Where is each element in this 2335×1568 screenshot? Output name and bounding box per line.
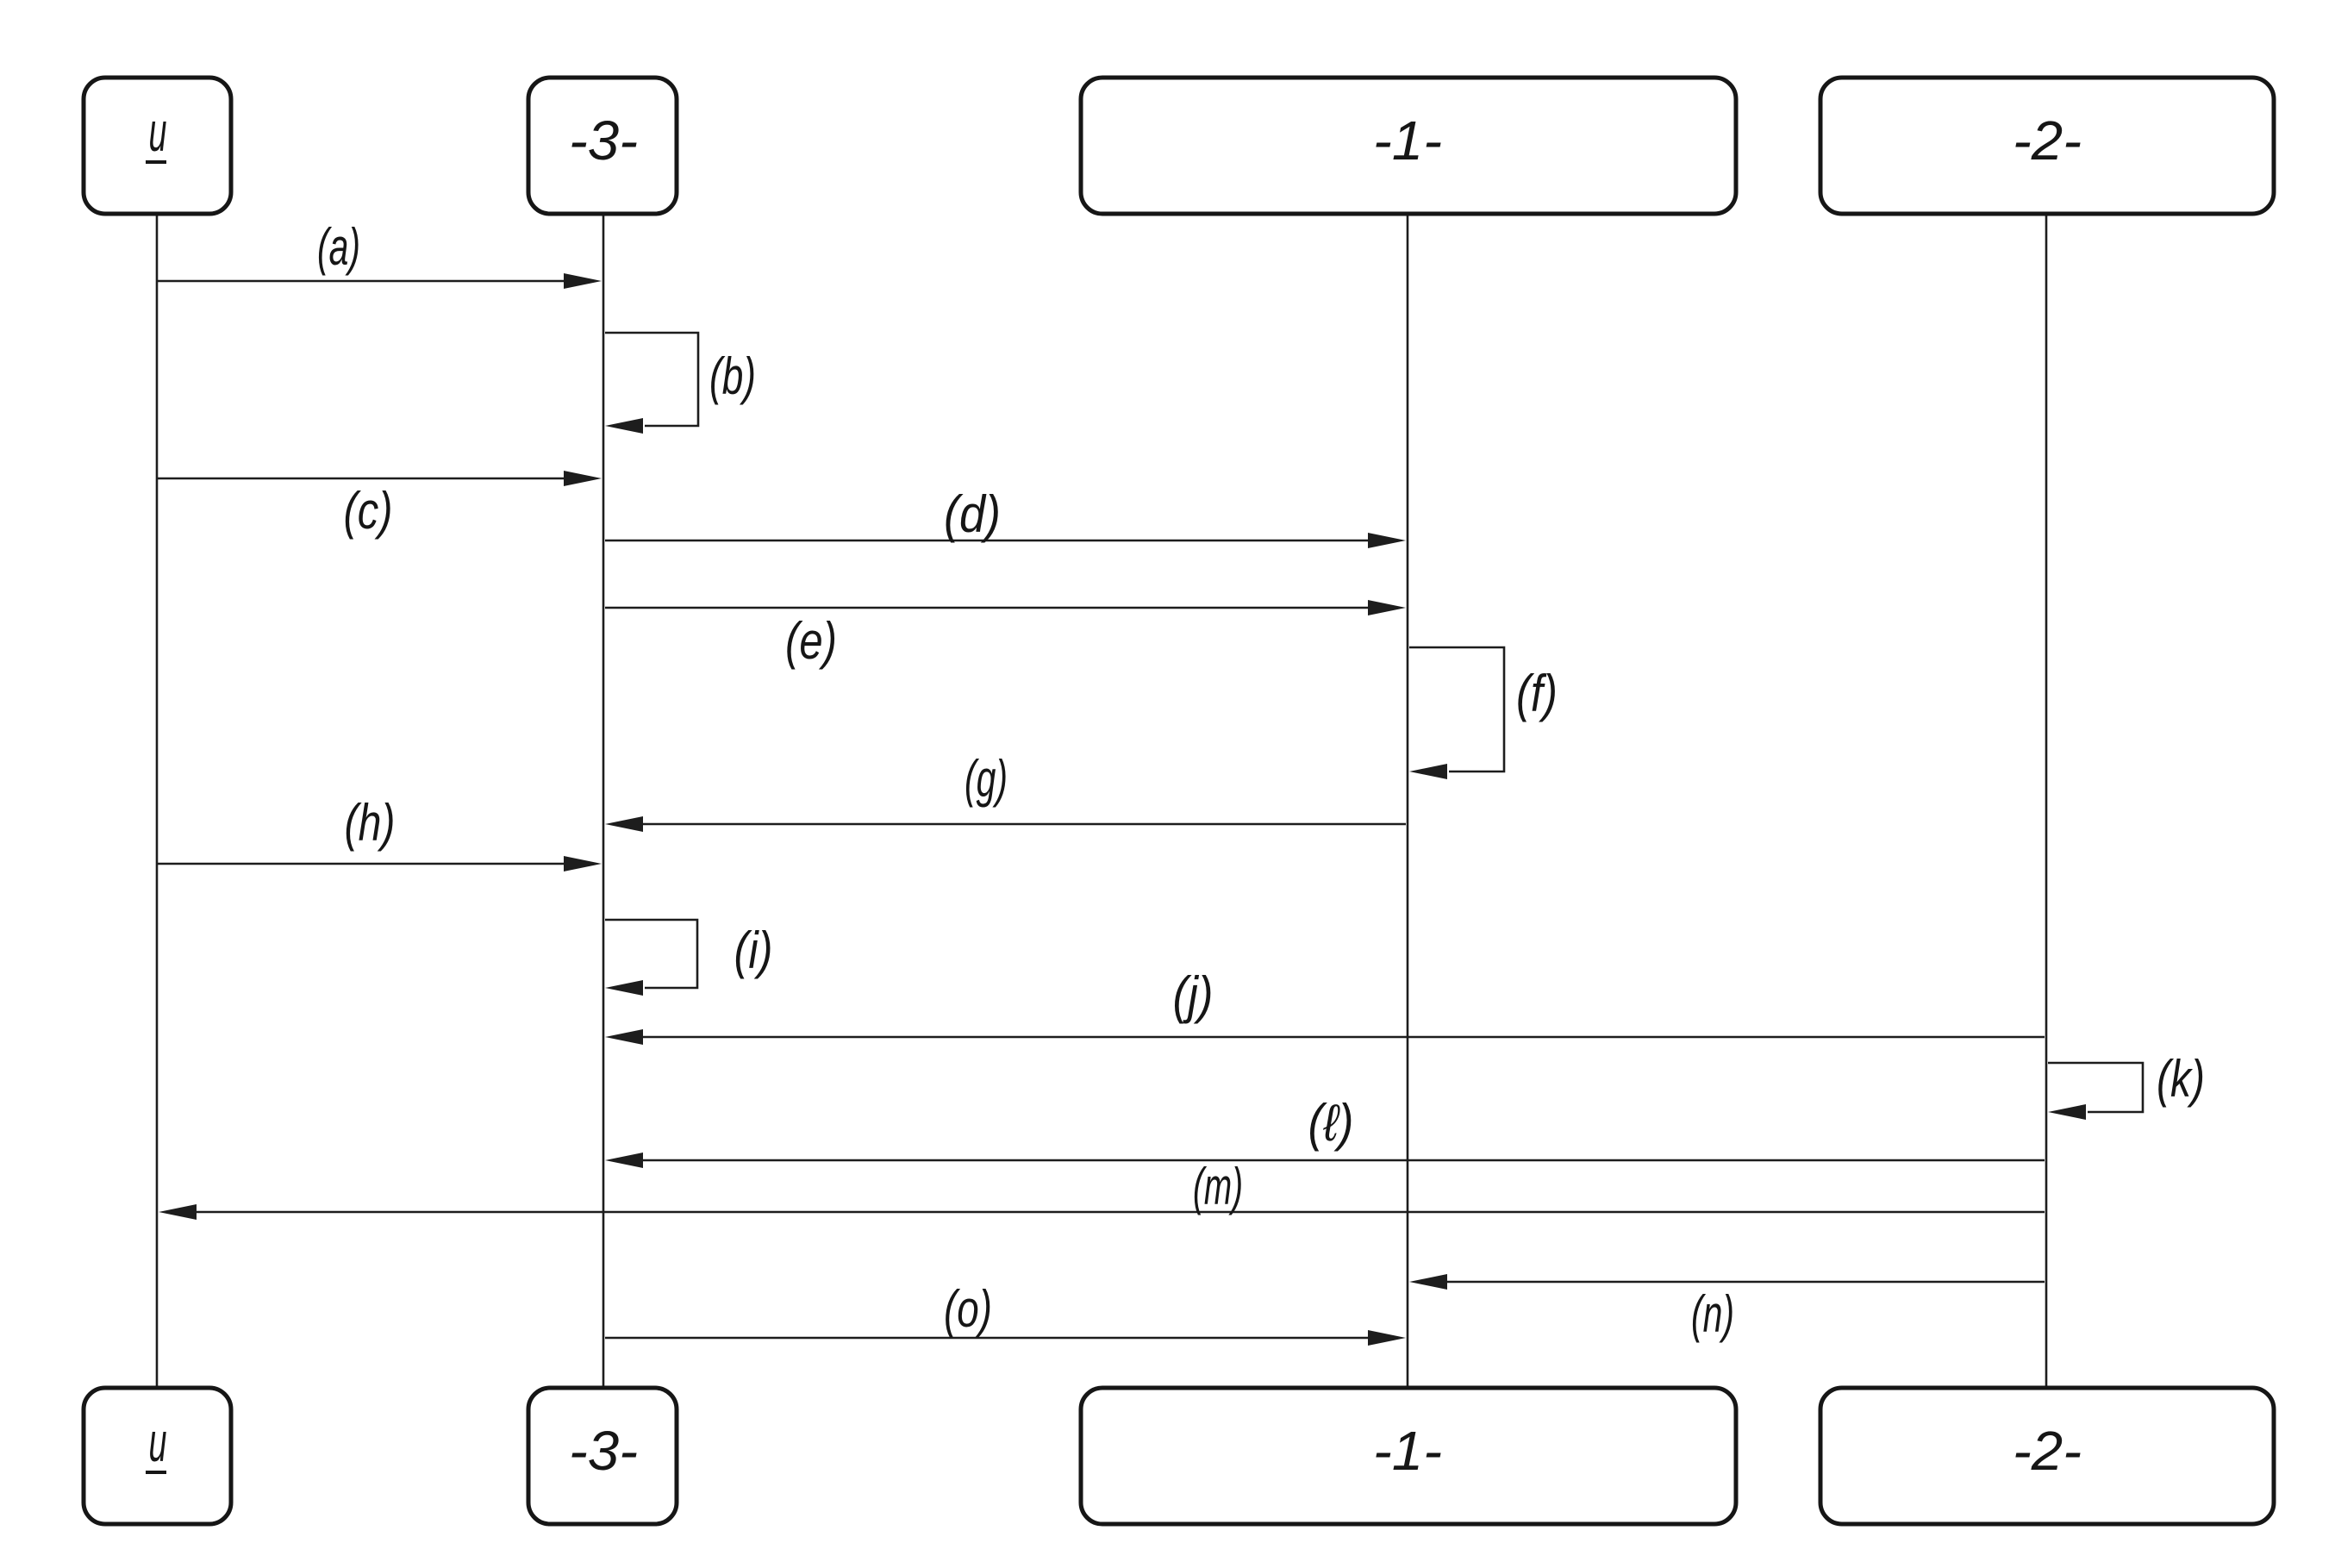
svg-text:-1-: -1-	[1373, 1420, 1442, 1482]
svg-text:u: u	[149, 101, 167, 163]
svg-text:(h): (h)	[345, 794, 396, 852]
self message (k) at -2-	[2048, 1063, 2143, 1112]
arrow (l) -2- to -3-	[643, 1159, 2045, 1162]
svg-text:-3-: -3-	[569, 109, 638, 172]
lifeline -1-	[1407, 216, 1409, 1388]
actor box -2- bottom	[1820, 1388, 2274, 1524]
svg-text:(k): (k)	[2157, 1050, 2205, 1108]
svg-text:(g): (g)	[965, 750, 1008, 808]
actor box -3- top	[528, 78, 677, 214]
svg-text:-2-: -2-	[2013, 1420, 2082, 1482]
svg-text:(b): (b)	[709, 347, 756, 405]
svg-text:u: u	[149, 1411, 167, 1473]
arrow (m) -2- to u	[197, 1211, 2045, 1214]
lifeline u	[156, 216, 159, 1388]
arrow (n) -2- to -1-	[1447, 1281, 2045, 1284]
self message (f) at -1-	[1409, 647, 1504, 772]
actor box -3- bottom	[528, 1388, 677, 1524]
arrow (a) u to -3-	[158, 280, 569, 283]
arrow (g) -1- to -3-	[643, 823, 1406, 826]
actor box u top	[84, 78, 231, 214]
svg-text:(c): (c)	[344, 482, 393, 540]
arrow (o) -3- to -1-	[605, 1337, 1373, 1340]
svg-text:-3-: -3-	[569, 1420, 638, 1482]
arrow (j) -2- to -3-	[643, 1036, 2045, 1039]
actor box u bottom	[84, 1388, 231, 1524]
self message (i) at -3-	[605, 920, 697, 988]
svg-text:(m): (m)	[1193, 1158, 1243, 1215]
arrow (c) u to -3-	[158, 478, 569, 480]
svg-text:(e): (e)	[785, 612, 837, 670]
lifeline -3-	[602, 216, 605, 1388]
arrow (e) -3- to -1-	[605, 607, 1373, 609]
svg-text:(n): (n)	[1691, 1285, 1734, 1343]
svg-text:(a): (a)	[317, 218, 360, 276]
actor box -1- top	[1081, 78, 1736, 214]
svg-text:-2-: -2-	[2013, 109, 2082, 172]
actor box -1- bottom	[1081, 1388, 1736, 1524]
svg-text:(j): (j)	[1173, 966, 1214, 1024]
arrow (d) -3- to -1-	[605, 540, 1373, 542]
lifeline -2-	[2045, 216, 2048, 1388]
svg-text:-1-: -1-	[1373, 109, 1442, 172]
svg-text:(f): (f)	[1516, 665, 1558, 722]
svg-text:(o): (o)	[944, 1280, 992, 1338]
svg-text:(i): (i)	[734, 921, 773, 979]
svg-text:(d): (d)	[944, 485, 1001, 543]
self message (b) at -3-	[605, 333, 698, 426]
arrow (h) u to -3-	[158, 863, 569, 865]
svg-text:(ℓ): (ℓ)	[1308, 1094, 1354, 1152]
actor box -2- top	[1820, 78, 2274, 214]
